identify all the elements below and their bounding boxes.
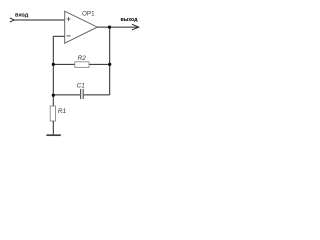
svg-text:OP1: OP1 [82,11,95,18]
svg-text:выход: выход [121,17,139,23]
svg-text:R2: R2 [78,55,87,62]
svg-text:C1: C1 [77,83,86,90]
svg-text:R1: R1 [58,108,67,115]
svg-text:вход: вход [15,12,29,18]
